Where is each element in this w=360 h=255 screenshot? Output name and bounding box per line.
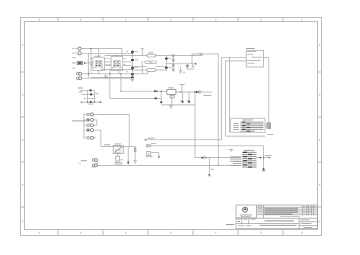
label J1 pin numbers	[72, 67, 75, 70]
wire feed lower block	[195, 157, 201, 159]
right column vertical 3	[225, 61, 227, 136]
net stub right of M1	[268, 133, 274, 136]
capacitor C4	[131, 73, 138, 75]
net T stub above choke L1	[141, 49, 144, 56]
U2 pin text 5	[247, 62, 254, 65]
rail net label row 1	[145, 139, 221, 141]
connector J2 pin 4	[87, 129, 94, 132]
plus mark cap C10	[187, 100, 188, 101]
connector J2 pin 3	[87, 124, 94, 127]
wire bridge1 to bridge2 lower	[105, 65, 112, 67]
wire J2 pin1 run	[93, 113, 129, 115]
wire choke L1 out	[156, 55, 203, 57]
sheet text	[301, 222, 312, 225]
earth ground symbol	[179, 71, 183, 73]
ground symbol power section	[169, 105, 173, 108]
right column vertical 2	[221, 57, 223, 140]
note text left of title block	[226, 224, 234, 225]
T-bar net stub	[191, 64, 194, 67]
zone labels bottom margin	[39, 232, 303, 234]
revision table right divider d	[310, 205, 312, 215]
label BR2	[113, 54, 119, 57]
module M1 dark pads	[242, 122, 250, 132]
connector J2 bracket	[84, 113, 86, 138]
top zone tick 5	[237, 18, 239, 22]
chassis arrow symbol	[186, 64, 188, 68]
regulator ground drop	[171, 94, 173, 105]
plus marks at bridge outputs	[126, 50, 128, 72]
bottom zone tick 5	[237, 230, 239, 236]
capacitor C2	[131, 59, 138, 61]
wire IC U2 pin2 feed	[226, 60, 247, 62]
date cell text	[238, 224, 244, 227]
left zone tick 2	[21, 116, 25, 118]
module M1 pin rows	[240, 122, 263, 132]
inner border frame	[25, 22, 318, 230]
label fuse rail	[104, 143, 110, 146]
zone labels top margin	[39, 19, 303, 21]
junction lower feed	[206, 157, 207, 158]
wire bridge2 to caps upper	[123, 61, 133, 63]
connector J3 pin 2	[92, 164, 97, 167]
dash left of J3	[79, 162, 81, 165]
connector J1 pin 2	[72, 52, 81, 55]
wire bus to bridge1 upper pin	[91, 61, 93, 63]
label near battery node	[95, 92, 98, 95]
capacitor column2 vertical	[165, 56, 167, 72]
plus mark near earth	[183, 72, 185, 74]
wire bridge1 to bridge2 upper	[105, 61, 112, 63]
wire choke L3 pin drop	[147, 71, 149, 73]
logo caption line 1	[240, 214, 252, 217]
resistor R1	[172, 55, 174, 57]
size cell divider 2	[248, 218, 250, 223]
label J2	[72, 120, 86, 121]
ground blob at branch bottom	[263, 168, 265, 170]
label U2	[246, 47, 255, 50]
wire drop into bridge2 top	[121, 49, 123, 57]
wire J2 pin4 drop	[100, 130, 102, 147]
label under R4 line2	[115, 163, 123, 166]
wire varistor drop	[117, 154, 119, 156]
label net 5V out	[203, 94, 211, 97]
rail below bridges upper	[100, 68, 132, 70]
wire J1 shield stub	[85, 62, 93, 64]
label under chassis cluster	[187, 68, 195, 71]
wire bridge1 bottom drop	[98, 70, 100, 74]
document number text	[260, 224, 297, 227]
TITLE BLOCK	[236, 205, 318, 228]
small cell text a	[258, 207, 262, 210]
rail varistor cluster	[101, 146, 137, 148]
battery BT1 label	[78, 88, 83, 89]
wire cap branch	[134, 147, 136, 159]
capacitor C6	[165, 58, 172, 60]
wire bridge2 bottom drop	[118, 70, 120, 74]
battery rail out arrow	[100, 101, 102, 103]
approvals text	[280, 215, 300, 218]
ground below bridge1	[104, 74, 108, 79]
wire regulator output	[176, 91, 196, 93]
size cell divider 1	[241, 218, 243, 223]
T-bar at regulator	[179, 84, 185, 86]
resistor pair vertical	[172, 57, 174, 71]
IC U2 box	[246, 50, 263, 67]
U2 pin text 1	[247, 50, 256, 53]
net label box row2	[146, 143, 156, 147]
connector J1 pin 1	[72, 47, 81, 50]
junction battery b	[94, 102, 95, 103]
top zone tick 6	[282, 18, 284, 22]
bottom zone tick 6	[282, 230, 284, 236]
label L1	[148, 51, 153, 54]
wire cap drop a	[182, 92, 184, 101]
cage cell text	[246, 224, 251, 227]
junction bus B top	[90, 48, 91, 49]
zone labels right margin	[319, 44, 321, 222]
bridge BR1 pin specks	[90, 58, 107, 68]
junction mov node	[127, 161, 129, 163]
module U3 pin rows	[242, 152, 257, 168]
junction rail plus	[120, 91, 121, 92]
small cell text b	[258, 210, 262, 213]
plus mark cap C9	[180, 100, 181, 101]
cage header text	[243, 218, 247, 221]
wire to choke L1 in	[105, 55, 147, 57]
revision table row 5	[257, 214, 318, 216]
wire diode D4 out	[201, 91, 212, 93]
connector J1 shield lug	[72, 61, 86, 64]
capacitor bank C1-C5 vertical bus	[131, 50, 133, 78]
connector J2 pin 1	[87, 113, 94, 116]
wire J1-4 stub	[82, 73, 89, 75]
title band divider	[236, 217, 318, 219]
right zone tick 1	[318, 71, 322, 73]
junction plus drop	[120, 73, 121, 74]
wire bottom rail under bridges	[82, 77, 133, 79]
diode D4	[196, 91, 201, 94]
diode D2 battery	[90, 93, 92, 95]
rail VIN minus	[110, 97, 161, 99]
ground at cap branch	[133, 159, 137, 164]
size header text	[237, 218, 240, 221]
junction col1 bottom rail	[217, 165, 218, 166]
logo caption line 2	[241, 215, 251, 218]
revision row text 2	[265, 209, 299, 212]
capacitor C5	[131, 77, 134, 79]
capacitor C9	[182, 101, 184, 103]
ground below capacitor bank	[131, 79, 135, 81]
wire J2 pin4 run	[93, 129, 101, 131]
power arrow down tap	[208, 174, 210, 177]
twisted pair crossover wires	[145, 61, 156, 63]
U2 pin text 2	[247, 53, 253, 56]
wire choke L3 out	[156, 69, 167, 71]
revision table right divider a	[301, 205, 303, 215]
label BR1	[94, 55, 100, 58]
power arrow down at mov node	[127, 163, 129, 165]
top zone tick 1	[57, 18, 59, 22]
wire bridge2 to choke B	[141, 61, 143, 74]
diode D1 battery	[90, 89, 92, 91]
SCHEMATIC	[81, 49, 269, 169]
spare gate box	[146, 151, 152, 157]
wire battery bottom rail	[81, 101, 100, 103]
capacitor C7	[165, 67, 172, 69]
wire right drop to connector J4	[268, 57, 270, 123]
revision row text 1	[265, 207, 299, 210]
revision table row 4	[257, 212, 318, 214]
left zone tick 3	[21, 161, 25, 163]
rail VIN plus	[121, 90, 154, 92]
revision table right divider b	[305, 205, 307, 215]
T-bar above lower block	[229, 149, 233, 152]
revision header text	[258, 205, 262, 208]
title block logo cell divider	[236, 217, 257, 219]
bottom zone tick 1	[57, 230, 59, 236]
diode D6	[201, 157, 205, 159]
date text	[301, 219, 310, 222]
choke L1	[147, 54, 156, 57]
resistor R3	[170, 95, 174, 98]
label under battery rail	[88, 103, 94, 106]
wire resistor R4 drop	[117, 160, 119, 163]
wire drop to plus rail	[120, 74, 122, 91]
size value text	[238, 221, 240, 222]
revision grid cell marks	[303, 205, 305, 208]
sheet of text	[304, 226, 313, 229]
junction at reg in	[161, 91, 162, 92]
wire J2 pin2 drop	[96, 120, 98, 125]
wire node up riser	[191, 54, 193, 64]
title block vertical divider 1	[256, 205, 258, 218]
capacitor C8	[160, 101, 162, 103]
net arrow right	[269, 157, 271, 159]
bottom zone tick 3	[147, 230, 149, 236]
resistor R6	[172, 69, 174, 71]
net T stub at choke rail end	[199, 54, 202, 56]
wire J3 join	[96, 160, 98, 165]
long vertical to lower section	[194, 92, 196, 158]
wire battery mid link	[88, 98, 95, 100]
wire battery right drop	[93, 90, 95, 102]
label U3 above lower block	[244, 149, 254, 152]
label J3	[81, 160, 87, 161]
earth stub wire	[180, 67, 182, 71]
revision table row 1	[257, 206, 318, 208]
title text	[265, 219, 295, 222]
title block vertical divider 2	[263, 205, 265, 218]
battery BT1 value label	[78, 91, 82, 94]
rail bottom long	[97, 164, 241, 166]
U2 pin text 4	[247, 59, 261, 62]
sheet box left divider	[298, 218, 300, 228]
wire choke L2 out	[156, 66, 167, 68]
regulator VR1	[167, 90, 176, 95]
top zone tick 2	[102, 18, 104, 22]
wire J1-2 long rail	[81, 52, 132, 54]
connector J3 pin 1	[92, 159, 97, 162]
module M1 outline	[231, 118, 265, 132]
wire bus to bridge1 lower pin	[91, 65, 93, 67]
resistor R2	[172, 59, 174, 61]
connector J4 right of M1	[265, 123, 271, 128]
junction cap bank top	[132, 53, 133, 54]
wire cap drop b	[188, 92, 190, 101]
varistor box RV1	[113, 146, 123, 154]
revision table row 2	[257, 208, 318, 210]
label under R4 line1	[115, 161, 123, 164]
junction node at feed	[195, 63, 197, 65]
sheet box row 2	[299, 225, 318, 227]
wire under M1	[226, 135, 266, 137]
wire J1-1 to bus	[81, 48, 122, 50]
wire drop to minus rail	[109, 69, 111, 98]
sheet box row 1	[299, 221, 318, 223]
zone labels left margin	[22, 44, 24, 222]
wire J2 loop drop	[128, 114, 130, 146]
wire D7 to net arrow	[264, 157, 269, 159]
capacitor C3	[131, 67, 138, 69]
wire battery top rail	[80, 89, 95, 91]
U2 pin text 3	[251, 56, 262, 59]
dwg header text	[250, 218, 255, 221]
right zone tick 2	[318, 116, 322, 118]
rail below bridges lower	[91, 76, 132, 78]
label net arrow	[265, 154, 272, 157]
capacitor C11 on branch	[134, 148, 136, 151]
top zone tick 4	[192, 18, 194, 22]
module U3 dark pads	[243, 152, 252, 168]
wire mov branch	[127, 147, 129, 162]
left zone tick 4	[21, 206, 25, 208]
right column vertical 1	[217, 54, 219, 165]
connector J1 pin 4	[77, 77, 82, 80]
choke L3	[147, 69, 156, 72]
revision table row 3	[257, 210, 318, 212]
label RV1	[114, 143, 121, 146]
resistor R5	[172, 64, 174, 66]
bottom zone tick 2	[102, 230, 104, 236]
revision table right divider c	[308, 205, 310, 215]
connector J2 pin 2	[87, 118, 94, 121]
battery rail left tick	[80, 101, 83, 103]
revision table right divider e	[313, 205, 315, 215]
wire battery second rail	[81, 93, 95, 95]
wire battery left drop	[87, 90, 89, 102]
company logo circle	[243, 207, 248, 212]
net label plus 12V	[145, 138, 155, 141]
ground rail power section	[161, 104, 195, 106]
wire top feed to right columns	[192, 53, 218, 55]
left zone tick 1	[21, 71, 25, 73]
bridge rectifier BR2	[111, 57, 123, 71]
bridge rectifier BR1	[93, 57, 105, 70]
junction minus drop	[109, 73, 110, 74]
label under J3 pin2	[92, 166, 96, 169]
wire IC U2 pin1 feed	[222, 56, 247, 58]
outer border frame	[21, 18, 322, 236]
title block outline	[236, 205, 318, 228]
rail net label row 2	[146, 145, 263, 147]
right zone tick 4	[318, 206, 322, 208]
wire diode D3 to regulator	[157, 90, 167, 92]
wire to choke L2 in	[132, 66, 146, 68]
junction at reg out	[180, 91, 181, 92]
connector J2 pin 5	[87, 136, 94, 139]
label M1	[242, 119, 253, 122]
bottom zone tick 4	[192, 230, 194, 236]
wire mid node horizontal	[173, 63, 195, 65]
ground bars at branch bottom	[262, 170, 266, 171]
right column vertical 4	[229, 57, 231, 132]
junction cap bank mid	[132, 69, 133, 70]
revision row text 3	[265, 211, 299, 214]
label battery mid	[84, 97, 87, 100]
wire to choke L3 in	[132, 69, 146, 71]
diode D3	[154, 90, 157, 93]
wire J2 pin3 stub	[93, 124, 97, 126]
capacitor battery bottom	[90, 101, 92, 103]
wire diode to block	[206, 157, 241, 159]
wire J2 pin5 stub	[93, 137, 96, 139]
pin name texts inside M1	[233, 123, 239, 130]
wire bridge2 to caps lower	[123, 65, 133, 67]
wire drop into bridge1 top	[98, 49, 100, 58]
wire right branch down	[263, 146, 265, 169]
size row divider	[236, 223, 299, 225]
bridge BR2 pin specks	[108, 58, 125, 68]
junction at long vertical	[194, 91, 195, 92]
T-bar stem at regulator	[181, 85, 183, 92]
wire J2 pin2 stub	[93, 119, 97, 121]
net labels left of U3	[230, 156, 242, 166]
label R4	[120, 158, 123, 161]
power arrow down spare	[158, 156, 160, 158]
capacitor C10	[188, 101, 190, 103]
label VR1	[168, 86, 174, 89]
wire cap drop at reg out	[160, 91, 162, 101]
bus wire A vertical	[87, 53, 89, 78]
junction right branch	[263, 157, 264, 158]
wire cap column2 to resistor pair	[166, 63, 173, 65]
label at power tap	[211, 168, 214, 171]
capacitor C1	[131, 51, 138, 53]
wire IC U2 output	[264, 56, 269, 58]
label J1	[72, 56, 76, 59]
junction battery a	[87, 102, 88, 103]
right zone tick 3	[318, 161, 322, 163]
rail below bridges mid	[88, 73, 148, 75]
connector J1 pin 3	[77, 72, 82, 75]
wire stub into U3	[233, 161, 242, 163]
diode D5 lower	[155, 97, 157, 99]
wire power tap drop	[208, 158, 210, 175]
wire spare gate out	[151, 153, 159, 157]
junction bus A lower	[88, 73, 89, 74]
bus wire B vertical	[90, 49, 92, 74]
resistor R4	[116, 156, 120, 161]
wire feed upper module	[230, 131, 231, 133]
top zone tick 3	[147, 18, 149, 22]
diode D7 at U3 right	[257, 157, 262, 159]
company logo mark	[244, 208, 247, 210]
